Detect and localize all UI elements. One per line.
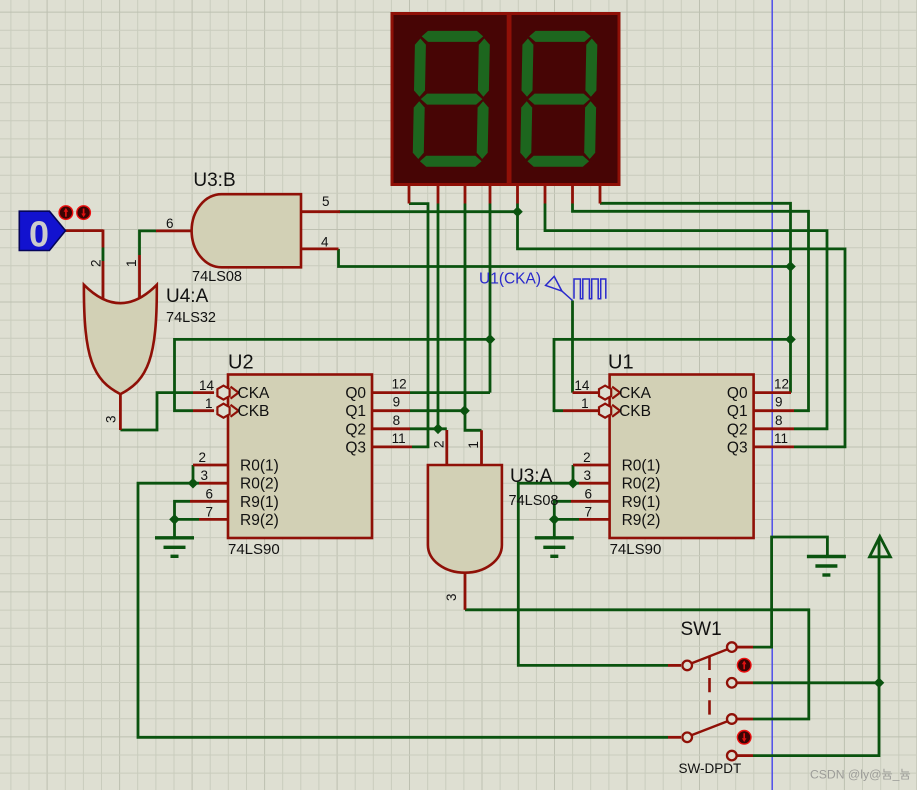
7-segment display module left — [392, 14, 508, 185]
sheet border line — [771, 0, 773, 790]
logic state down button — [77, 206, 91, 220]
U2 pins R0 R9 — [193, 464, 228, 467]
svg-text:U2: U2 — [228, 352, 254, 374]
svg-text:7: 7 — [205, 505, 213, 520]
svg-text:CKA: CKA — [238, 385, 271, 402]
wire display-pin2 to U2.Q2 junction — [437, 204, 440, 429]
svg-text:11: 11 — [774, 431, 788, 446]
SW1 down button — [737, 731, 751, 745]
wire U1.R9(2) to ground net — [554, 518, 579, 521]
svg-text:74LS08: 74LS08 — [192, 269, 242, 285]
svg-text:4: 4 — [321, 235, 329, 250]
wire U1.R9(1) to ground — [554, 501, 571, 538]
svg-text:3: 3 — [444, 593, 459, 601]
svg-text:3: 3 — [200, 468, 208, 483]
wire U1.R0(1) to U1.R0(2) — [572, 465, 575, 483]
U2 pins Q0-Q3 — [372, 391, 410, 394]
svg-text:SW1: SW1 — [681, 619, 722, 640]
svg-text:9: 9 — [775, 395, 783, 410]
wire power to SW1 pole2 throw B — [753, 538, 879, 756]
svg-text:CKA: CKA — [619, 385, 652, 402]
svg-text:SW-DPDT: SW-DPDT — [679, 761, 742, 776]
svg-text:3: 3 — [583, 468, 591, 483]
U3:A pin 3 — [464, 573, 467, 610]
svg-text:14: 14 — [199, 378, 215, 393]
AND gate U3:B (74LS08, mirrored) — [192, 194, 301, 267]
switch SW1 SW-DPDT — [682, 661, 692, 671]
wire U2.Q0 to U2.CKB — [175, 339, 491, 410]
junction — [874, 678, 885, 689]
svg-text:U1: U1 — [608, 352, 634, 374]
svg-text:U4:A: U4:A — [166, 286, 209, 307]
ground right — [807, 557, 846, 576]
junction — [785, 261, 796, 272]
U1 pins Q0-Q3 — [754, 391, 791, 394]
svg-text:2: 2 — [198, 450, 206, 465]
wire U2.Q2 row to U3:A.2 — [410, 427, 447, 430]
U1 pins CKA CKB — [573, 391, 599, 394]
ground U1 — [535, 538, 574, 557]
svg-text:CSDN @ly@늄_늄: CSDN @ly@늄_늄 — [810, 768, 911, 782]
AND gate U3:A (74LS08, rotated down) — [428, 465, 502, 573]
svg-text:R0(1): R0(1) — [622, 458, 661, 475]
SW1 link dashed — [708, 656, 711, 716]
svg-text:6: 6 — [584, 487, 592, 502]
wire U4:A.3 to U2.CKA — [120, 393, 193, 430]
svg-text:6: 6 — [166, 216, 174, 231]
svg-text:Q3: Q3 — [345, 439, 366, 456]
wire display-pin8 to U1.Q0 — [600, 203, 791, 392]
junction — [512, 206, 523, 217]
svg-text:74LS90: 74LS90 — [610, 541, 662, 558]
svg-text:R0(1): R0(1) — [240, 458, 279, 475]
U4:A pin 2 — [102, 261, 105, 300]
OR gate U4:A (74LS32, rotated down) — [84, 285, 157, 394]
U3:A pins 1 2 — [445, 430, 448, 465]
junction — [188, 478, 199, 489]
wire U2.R0(1) to U2.R0(2) — [192, 465, 195, 483]
wire power to SW1 pole1 throw B — [753, 681, 879, 684]
wire U2.Q1 row — [410, 409, 465, 412]
U3:B pin 4 — [301, 247, 339, 250]
U2 pins CKA CKB — [193, 391, 214, 394]
svg-text:Q0: Q0 — [727, 385, 748, 402]
junction — [568, 478, 579, 489]
right digit segments — [520, 31, 597, 167]
svg-text:7: 7 — [584, 505, 592, 520]
wire U2.R9(2) to ground net — [175, 518, 200, 521]
svg-text:74LS08: 74LS08 — [509, 493, 559, 509]
SW1 levers — [692, 649, 728, 663]
junction — [459, 405, 470, 416]
junction — [433, 424, 444, 435]
wire U3:A.3 to SW1 pole2 throw A — [465, 610, 809, 719]
svg-text:11: 11 — [392, 431, 406, 446]
svg-text:1: 1 — [205, 396, 213, 411]
SW1 up button — [737, 658, 751, 672]
svg-text:2: 2 — [89, 259, 104, 267]
svg-text:2: 2 — [432, 440, 447, 448]
wire display-pin5 to U1.Q3 — [518, 204, 846, 447]
svg-text:74LS32: 74LS32 — [166, 310, 216, 326]
svg-text:R9(1): R9(1) — [240, 494, 279, 511]
SW1 pin stubs — [668, 664, 681, 667]
U1 pins R0 R9 — [573, 464, 610, 467]
svg-text:9: 9 — [393, 395, 401, 410]
wire U3:B.5 to display-pin5 — [339, 210, 518, 213]
svg-text:CKB: CKB — [238, 403, 270, 420]
svg-text:14: 14 — [574, 378, 590, 393]
svg-text:Q2: Q2 — [345, 421, 366, 438]
svg-text:1: 1 — [466, 441, 481, 449]
display pins — [408, 186, 411, 204]
svg-text:R9(1): R9(1) — [622, 494, 661, 511]
svg-text:6: 6 — [205, 487, 213, 502]
wire U1.R0(2) to SW1 pole1 common — [518, 483, 668, 665]
svg-text:Q0: Q0 — [345, 385, 366, 402]
svg-text:U3:A: U3:A — [510, 466, 553, 487]
svg-text:Q3: Q3 — [727, 439, 748, 456]
wire display-pin3 / U2.Q1 to U3:A.1 — [465, 204, 482, 431]
wire U1.Q0 to U1.CKB — [554, 339, 791, 410]
wire display-pin4 to U2.Q0 — [489, 204, 492, 393]
power terminal arrow — [870, 536, 891, 556]
U3:B pin 5 — [301, 210, 340, 213]
counter U1 74LS90 — [610, 375, 754, 539]
wire SW1 pole1 throw A to ground — [753, 537, 827, 647]
svg-text:1: 1 — [581, 396, 589, 411]
svg-text:R0(2): R0(2) — [240, 476, 279, 493]
wire display-pin1 to U2.Q3 — [409, 204, 428, 447]
svg-text:5: 5 — [322, 194, 330, 209]
U4:A pin 3 — [119, 394, 122, 430]
junction — [549, 514, 560, 525]
svg-text:1: 1 — [124, 259, 139, 267]
svg-text:8: 8 — [775, 413, 783, 428]
wire logicstate to U4:A.2 mid — [102, 248, 105, 262]
svg-text:12: 12 — [774, 377, 789, 392]
7-segment display module right — [510, 14, 619, 185]
ground U2 — [155, 538, 194, 557]
clock generator U1(CKA) — [546, 276, 606, 300]
svg-text:74LS90: 74LS90 — [228, 541, 280, 558]
svg-text:3: 3 — [104, 415, 119, 423]
svg-text:U3:B: U3:B — [193, 170, 235, 191]
wire U2.R0(2) to SW1 pole2 common — [138, 483, 668, 737]
U4:A pin 1 — [138, 255, 141, 300]
svg-text:2: 2 — [583, 450, 591, 465]
svg-text:0: 0 — [29, 214, 49, 255]
wire display-pin7 to U1.Q1 — [573, 204, 809, 411]
U3:B pin 6 — [156, 229, 193, 232]
svg-text:12: 12 — [392, 377, 407, 392]
wire display-pin6 to U1.Q2 — [545, 204, 827, 429]
svg-text:R9(2): R9(2) — [622, 512, 661, 529]
svg-text:U1(CKA): U1(CKA) — [479, 271, 541, 288]
junction — [485, 334, 496, 345]
wire U3:B.6 to U4:A.1 — [140, 231, 157, 255]
junction — [169, 514, 180, 525]
logic state wire — [64, 229, 103, 232]
wire clock to U1.CKA — [571, 301, 574, 393]
left digit segments — [413, 31, 490, 167]
svg-text:Q2: Q2 — [727, 421, 748, 438]
wire U2.R9(1) to ground — [175, 501, 191, 538]
svg-text:R0(2): R0(2) — [622, 476, 661, 493]
svg-text:Q1: Q1 — [727, 403, 748, 420]
logic state 0 input — [19, 211, 65, 250]
wire U2.Q0 row — [410, 391, 490, 394]
svg-text:CKB: CKB — [619, 403, 651, 420]
svg-text:Q1: Q1 — [345, 403, 366, 420]
counter U2 74LS90 — [228, 375, 372, 539]
junction — [785, 334, 796, 345]
svg-text:R9(2): R9(2) — [240, 512, 279, 529]
wire U3:B.4 to U1.Q0 net — [339, 249, 791, 267]
logic state up button — [59, 206, 73, 220]
svg-text:8: 8 — [393, 413, 401, 428]
